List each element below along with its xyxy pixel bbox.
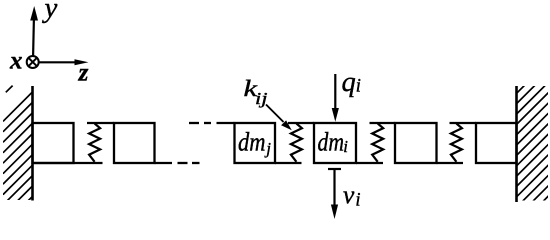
wire: bottom stub right of dm_i — [356, 162, 383, 164]
force arrow q_i — [332, 74, 339, 122]
svg-text:j: j — [264, 139, 271, 158]
mass dm_i — [314, 123, 356, 163]
y axis arrow — [30, 6, 38, 56]
mass m5 — [395, 123, 437, 163]
mass m2 — [114, 123, 155, 163]
svg-text:qi: qi — [342, 67, 361, 98]
svg-text:i: i — [343, 137, 348, 156]
dashed continuation bottom row — [178, 162, 200, 164]
z axis arrow — [39, 59, 89, 65]
spring 1 top stub — [87, 122, 114, 124]
svg-text:x: x — [9, 48, 23, 75]
dashed continuation top row — [189, 122, 235, 124]
svg-text:dm: dm — [318, 128, 345, 157]
wire: bottom rail from wall under spring 1 — [33, 162, 103, 164]
spring k_ij zigzag — [291, 124, 302, 162]
mass m6 (attached to right wall) — [476, 123, 517, 163]
spring k_ij top stub — [288, 122, 314, 124]
mass dm_j — [235, 123, 276, 163]
spring 3 zigzag — [372, 124, 383, 162]
left wall hatching — [3, 92, 33, 226]
left wall line — [31, 86, 34, 201]
svg-text:z: z — [78, 59, 89, 86]
svg-text:vi: vi — [343, 180, 360, 211]
svg-text:y: y — [42, 0, 58, 24]
mass m1 (attached to left wall) — [33, 123, 74, 163]
spring 1 zigzag — [89, 124, 100, 162]
velocity arrow v_i with datum bar — [328, 169, 341, 219]
hatch stub at wall top corner — [6, 86, 13, 93]
right wall line — [515, 86, 518, 202]
leader arrow from k_ij to spring — [266, 105, 292, 131]
right wall hatching — [516, 61, 548, 228]
axis origin symbol (x into page) — [27, 56, 39, 68]
spring 4 zigzag — [451, 124, 462, 162]
svg-text:dm: dm — [238, 128, 266, 157]
spring 4 top stub — [450, 122, 477, 124]
wire: bottom stub right of mass m2 — [155, 162, 173, 164]
wire: bottom stub right of m5 — [437, 162, 464, 164]
spring 3 top stub — [370, 122, 396, 124]
wire: bottom stub right of dm_j — [275, 162, 302, 164]
